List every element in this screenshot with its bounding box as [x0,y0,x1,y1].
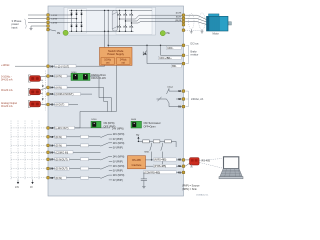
label 61 COM RS-485 [144,171,177,174]
wire motor U [185,14,197,16]
cable screen ellipse 1 [189,13,194,29]
wire external dashed vertical 5 [38,121,40,180]
resistor input 29 [81,167,89,170]
wire 33 to switch [89,177,101,179]
inverter leg 2 [125,10,127,31]
terminal 33 [47,176,50,179]
svg-text:relay1: relay1 [167,86,174,89]
svg-text:0/4-20 mA: 0/4-20 mA [1,105,13,108]
label +10V OUT [55,65,76,68]
motor M [228,22,231,25]
terminal 96 U [182,14,185,17]
wire DC- feed to SMPS [107,10,109,47]
node PE left [63,30,68,35]
terminal 69 [182,165,185,168]
ground PE input [30,26,32,28]
label BR- [172,65,182,68]
wire common dashed rail [42,80,44,105]
svg-text:input: input [12,25,18,29]
cable screen ellipse 2 [199,13,206,30]
terminal 98 W [182,20,185,23]
wire 20 [50,151,101,153]
terminal 91 L1 [47,14,50,17]
wire DC+ feed to SMPS [104,10,106,47]
label 53 A IN [55,75,67,78]
svg-text:(P RS-485): (P RS-485) [154,165,166,168]
svg-text:(D IN/OUT): (D IN/OUT) [56,168,68,171]
wire PE input [31,25,46,27]
svg-text:S801: S801 [144,152,150,154]
svg-text:(NPN) = Sink: (NPN) = Sink [182,188,197,191]
ground motor screen 1 [190,29,192,32]
terminal 02 [182,98,185,101]
label 55 COM [55,93,81,96]
clamp converter ground [190,164,193,167]
wire UDC+ tap [160,45,162,55]
wire converter to laptop 2 [200,163,223,169]
switch 19 NPN/PNP select [101,143,109,146]
svg-text:out: out [106,62,110,65]
terminal 18 [47,136,50,139]
svg-text:240Vac, 2A: 240Vac, 2A [191,98,204,101]
label UDC+/BR+ [159,56,182,59]
svg-text:PE: PE [57,32,61,35]
svg-text:130BA012.11: 130BA012.11 [196,193,209,196]
svg-text:(D IN): (D IN) [56,136,63,139]
wire converter to laptop 1 [200,159,223,161]
svg-text:PE: PE [167,32,171,35]
meter analog source 54 [28,88,30,95]
svg-text:BR-: BR- [172,65,176,68]
power supply SMPS box [100,47,133,65]
svg-text:(+24V OUT): (+24V OUT) [56,127,69,130]
resistor termination R1 [143,140,150,143]
wire external dashed row y127.9 [11,127,46,129]
node external 24V arrow [17,180,19,183]
terminal 03 [182,90,185,93]
svg-text:0V (PNP): 0V (PNP) [113,179,123,182]
node external 0V arrow [32,180,34,183]
capacitor DC-link [112,10,117,31]
wire DC- bus [69,30,134,32]
wire L3 input [28,21,46,23]
wire 68 [146,159,184,161]
wire external dashed vertical 3 [24,121,26,180]
svg-text:24V (NPN): 24V (NPN) [113,133,125,136]
wire 18 to switch [89,136,101,138]
svg-text:S640: S640 [131,119,137,121]
wire 69 [146,165,184,167]
wire relay NC 01 [176,106,184,108]
terminal 20 [47,151,50,154]
resistor input 33 [81,176,89,179]
switch 18 NPN/PNP select [101,134,109,137]
svg-text:Interface: Interface [132,164,142,167]
svg-text:OFF=Open: OFF=Open [144,125,157,128]
wire 33 [50,177,81,179]
wire termination right drop [175,141,177,147]
svg-text:UDC-: UDC- [167,47,173,50]
meter analog source 53 [28,75,30,82]
wire UDC- [108,44,183,46]
label 69 P RS-485 [154,164,177,167]
terminal 93 L3 [47,21,50,24]
wire 61 [144,171,184,173]
terminal 55 [47,93,50,96]
relay contact arm [169,89,176,92]
label 42 A OUT [55,103,69,106]
wire L2 input [28,18,46,20]
terminal 19 [47,144,50,147]
converter RS-485 red box [190,158,200,165]
relay coil slash [158,97,162,101]
wire device common 53 [41,79,43,81]
wire device to 42 [41,103,47,105]
node arrow common 2 [42,99,44,101]
terminal 61 [182,171,185,174]
svg-text:24V (NPN): 24V (NPN) [113,174,125,177]
wire UDC+/BR+ [161,54,184,56]
svg-text:L2 92: L2 92 [52,19,58,21]
ground 61 [142,186,145,188]
rectifier leg 3 [81,10,83,31]
wire 55 [50,93,92,95]
wire +24V out step [50,65,117,128]
svg-text:0V (PNP): 0V (PNP) [113,138,123,141]
svg-text:(COM D IN): (COM D IN) [56,151,69,154]
rectifier block box [68,9,87,33]
svg-text:(A IN): (A IN) [56,86,62,89]
wire +10Vdc to 50 [15,65,46,67]
svg-text:(+10 V OUT): (+10 V OUT) [56,65,70,68]
terminal 99 PE [182,23,185,26]
terminal 97 V [182,17,185,20]
svg-text:(D IN/OUT): (D IN/OUT) [56,158,68,161]
rectifier leg 2 [76,10,78,31]
wire 29 to switch [89,168,101,170]
svg-text:0/4-20 mA: 0/4-20 mA [1,79,13,82]
wire 12 [50,127,110,129]
transistor brake chopper [143,51,146,56]
wire 42 [50,104,78,106]
wire 68 to converter [185,159,189,161]
terminal BR- [182,62,185,65]
terminal UDC+/BR+ [182,54,185,57]
wire external dashed vertical 2 [17,121,19,180]
svg-text:(COM A IN/OUT): (COM A IN/OUT) [56,93,74,96]
svg-text:(A OUT): (A OUT) [56,104,65,107]
label 29 [55,167,70,170]
svg-text:5V: 5V [136,134,139,137]
svg-text:OFF (PNP): OFF (PNP) [104,125,116,128]
drive enclosure box [48,6,184,196]
resistor input 19 [81,144,89,147]
wire device to 53 [41,75,47,78]
meter analog output device 42 [28,100,30,107]
wire relay common 02 [176,98,184,100]
svg-text:out: out [122,62,126,65]
switch 27 NPN/PNP select [101,157,109,160]
wire 19 to switch [89,144,101,146]
wire DC+ bus [69,9,152,11]
wire external dashed vertical 1 [10,121,12,180]
wire U output [120,15,184,19]
node arrow common 1 [42,86,44,88]
wire screen dashed right [44,71,46,111]
interface RS-485 box [128,156,146,169]
terminal 95 PE [47,25,50,28]
wire L1 to rectifier [50,14,72,16]
svg-text:0V (PNP): 0V (PNP) [113,170,123,173]
wire 53 [50,75,99,77]
wire +10V out [50,64,105,67]
svg-text:0V (PNP): 0V (PNP) [113,161,123,164]
wire external dashed row y159.3 [11,158,46,160]
svg-text:OFF/U=0-10V: OFF/U=0-10V [91,77,106,80]
capacitor 61 to ground [143,172,145,179]
svg-text:Power Supply: Power Supply [107,52,124,56]
svg-text:UDC+/BR+: UDC+/BR+ [159,57,172,60]
wire external dashed row y136.8 [11,136,46,138]
wire 53 staircase down [99,76,111,111]
switch S640 body [131,121,142,128]
terminal 29 [47,167,50,170]
node on 68 [151,159,152,160]
resistor termination R2 [153,140,160,143]
rectifier leg 1 [71,10,73,31]
terminal 53 [47,75,50,78]
inverter block box [116,8,152,35]
switch 33 NPN/PNP select [101,175,109,178]
inverter leg 1 [119,10,121,31]
label 18 [55,135,67,138]
svg-text:L1 91: L1 91 [52,15,58,17]
svg-text:(D IN): (D IN) [56,144,63,147]
bracket relay rating [186,91,189,107]
svg-text:24V (NPN): 24V (NPN) [113,156,125,159]
label 27 [55,158,70,161]
svg-text:(U) 96: (U) 96 [176,12,182,14]
terminal 27 [47,158,50,161]
terminal 50 [47,65,50,68]
label 68 N RS-485 [154,158,177,161]
wire 69 to converter [185,163,189,166]
node PE right [160,31,165,36]
svg-text:(N RS-485): (N RS-485) [154,159,166,162]
svg-text:(COM RS-485): (COM RS-485) [144,171,160,174]
wire external dashed vertical 4 [31,121,33,180]
svg-text:L3 93: L3 93 [52,22,58,24]
terminal motor screen [182,29,185,32]
wire 18 [50,136,81,138]
terminal 42 [47,103,50,106]
terminal 01 [182,105,185,108]
label 19 [55,144,67,147]
wire 19 [50,144,81,146]
svg-text:DC bus: DC bus [191,42,200,45]
switch 29 NPN/PNP select [101,166,109,169]
wire device to 54 [41,88,47,90]
svg-text:resistor: resistor [191,53,199,56]
wire brake chopper [146,45,148,63]
terminal 92 L2 [47,17,50,20]
svg-text:0/4-20 mA: 0/4-20 mA [1,89,13,92]
svg-text:RS-485: RS-485 [132,159,141,162]
wire 27 [50,158,81,160]
wire external dashed row y152.3 [11,151,46,153]
svg-text:0V (PNP): 0V (PNP) [113,147,123,150]
label 12 +24V OUT [55,126,75,129]
switch S200 body [71,73,90,80]
wire screen bond dashed [185,29,204,31]
wire 54 staircase down [104,87,108,111]
wire PE to PE node [49,30,56,31]
svg-text:(V) 97: (V) 97 [176,17,182,19]
computer laptop [224,157,239,169]
wire 29 [50,168,81,170]
terminal 12 [47,127,50,130]
svg-text:+10Vdc: +10Vdc [1,64,10,67]
terminal 68 [182,159,185,162]
wire BR- [147,63,184,65]
wire termination chain [138,140,176,142]
power section inner box [64,7,156,35]
svg-text:(A IN): (A IN) [56,75,62,78]
svg-text:(D IN): (D IN) [56,177,63,180]
label 20 COM D IN [55,151,73,154]
wire relay NO 03 [176,90,184,92]
svg-text:S200: S200 [91,119,97,121]
terminal UDC- [182,44,185,47]
svg-text:24V (NPN): 24V (NPN) [113,165,125,168]
terminal PE screen [47,28,50,31]
resistor input 18 [81,135,89,138]
svg-text:0V: 0V [30,187,33,189]
svg-text:Motor: Motor [213,33,220,36]
label 33 [55,176,67,179]
resistor termination R3 [165,140,172,143]
terminal 54 [47,86,50,89]
switch S801 pole 1 [151,143,153,145]
svg-text:(W) 98: (W) 98 [175,20,182,22]
wire motor W [185,21,197,23]
bracket DC bus / brake resistor [186,45,189,63]
wire motor V [185,17,197,19]
svg-text:24V: 24V [15,187,20,189]
wire external dashed row y168.5 [11,168,46,170]
wire device common 54 [41,92,43,94]
wire L1 input [28,14,46,16]
switch S801 pole 2 [162,143,164,145]
label UDC- [167,46,182,49]
switch NPN/PNP body [91,121,101,127]
resistor input 27 [81,158,89,161]
wire 54 [50,86,104,88]
wire W output [132,22,184,23]
svg-text:24V (NPN): 24V (NPN) [113,142,125,145]
label 54 A IN [55,86,67,89]
ground motor screen 2 [201,30,203,32]
inverter leg 3 [131,10,133,31]
wire external dashed row y145.4 [11,144,46,146]
wire 27 to switch [89,158,101,160]
node on 69 [162,166,163,167]
wire external dashed row y177.7 [11,177,46,179]
wire V output [126,18,184,21]
